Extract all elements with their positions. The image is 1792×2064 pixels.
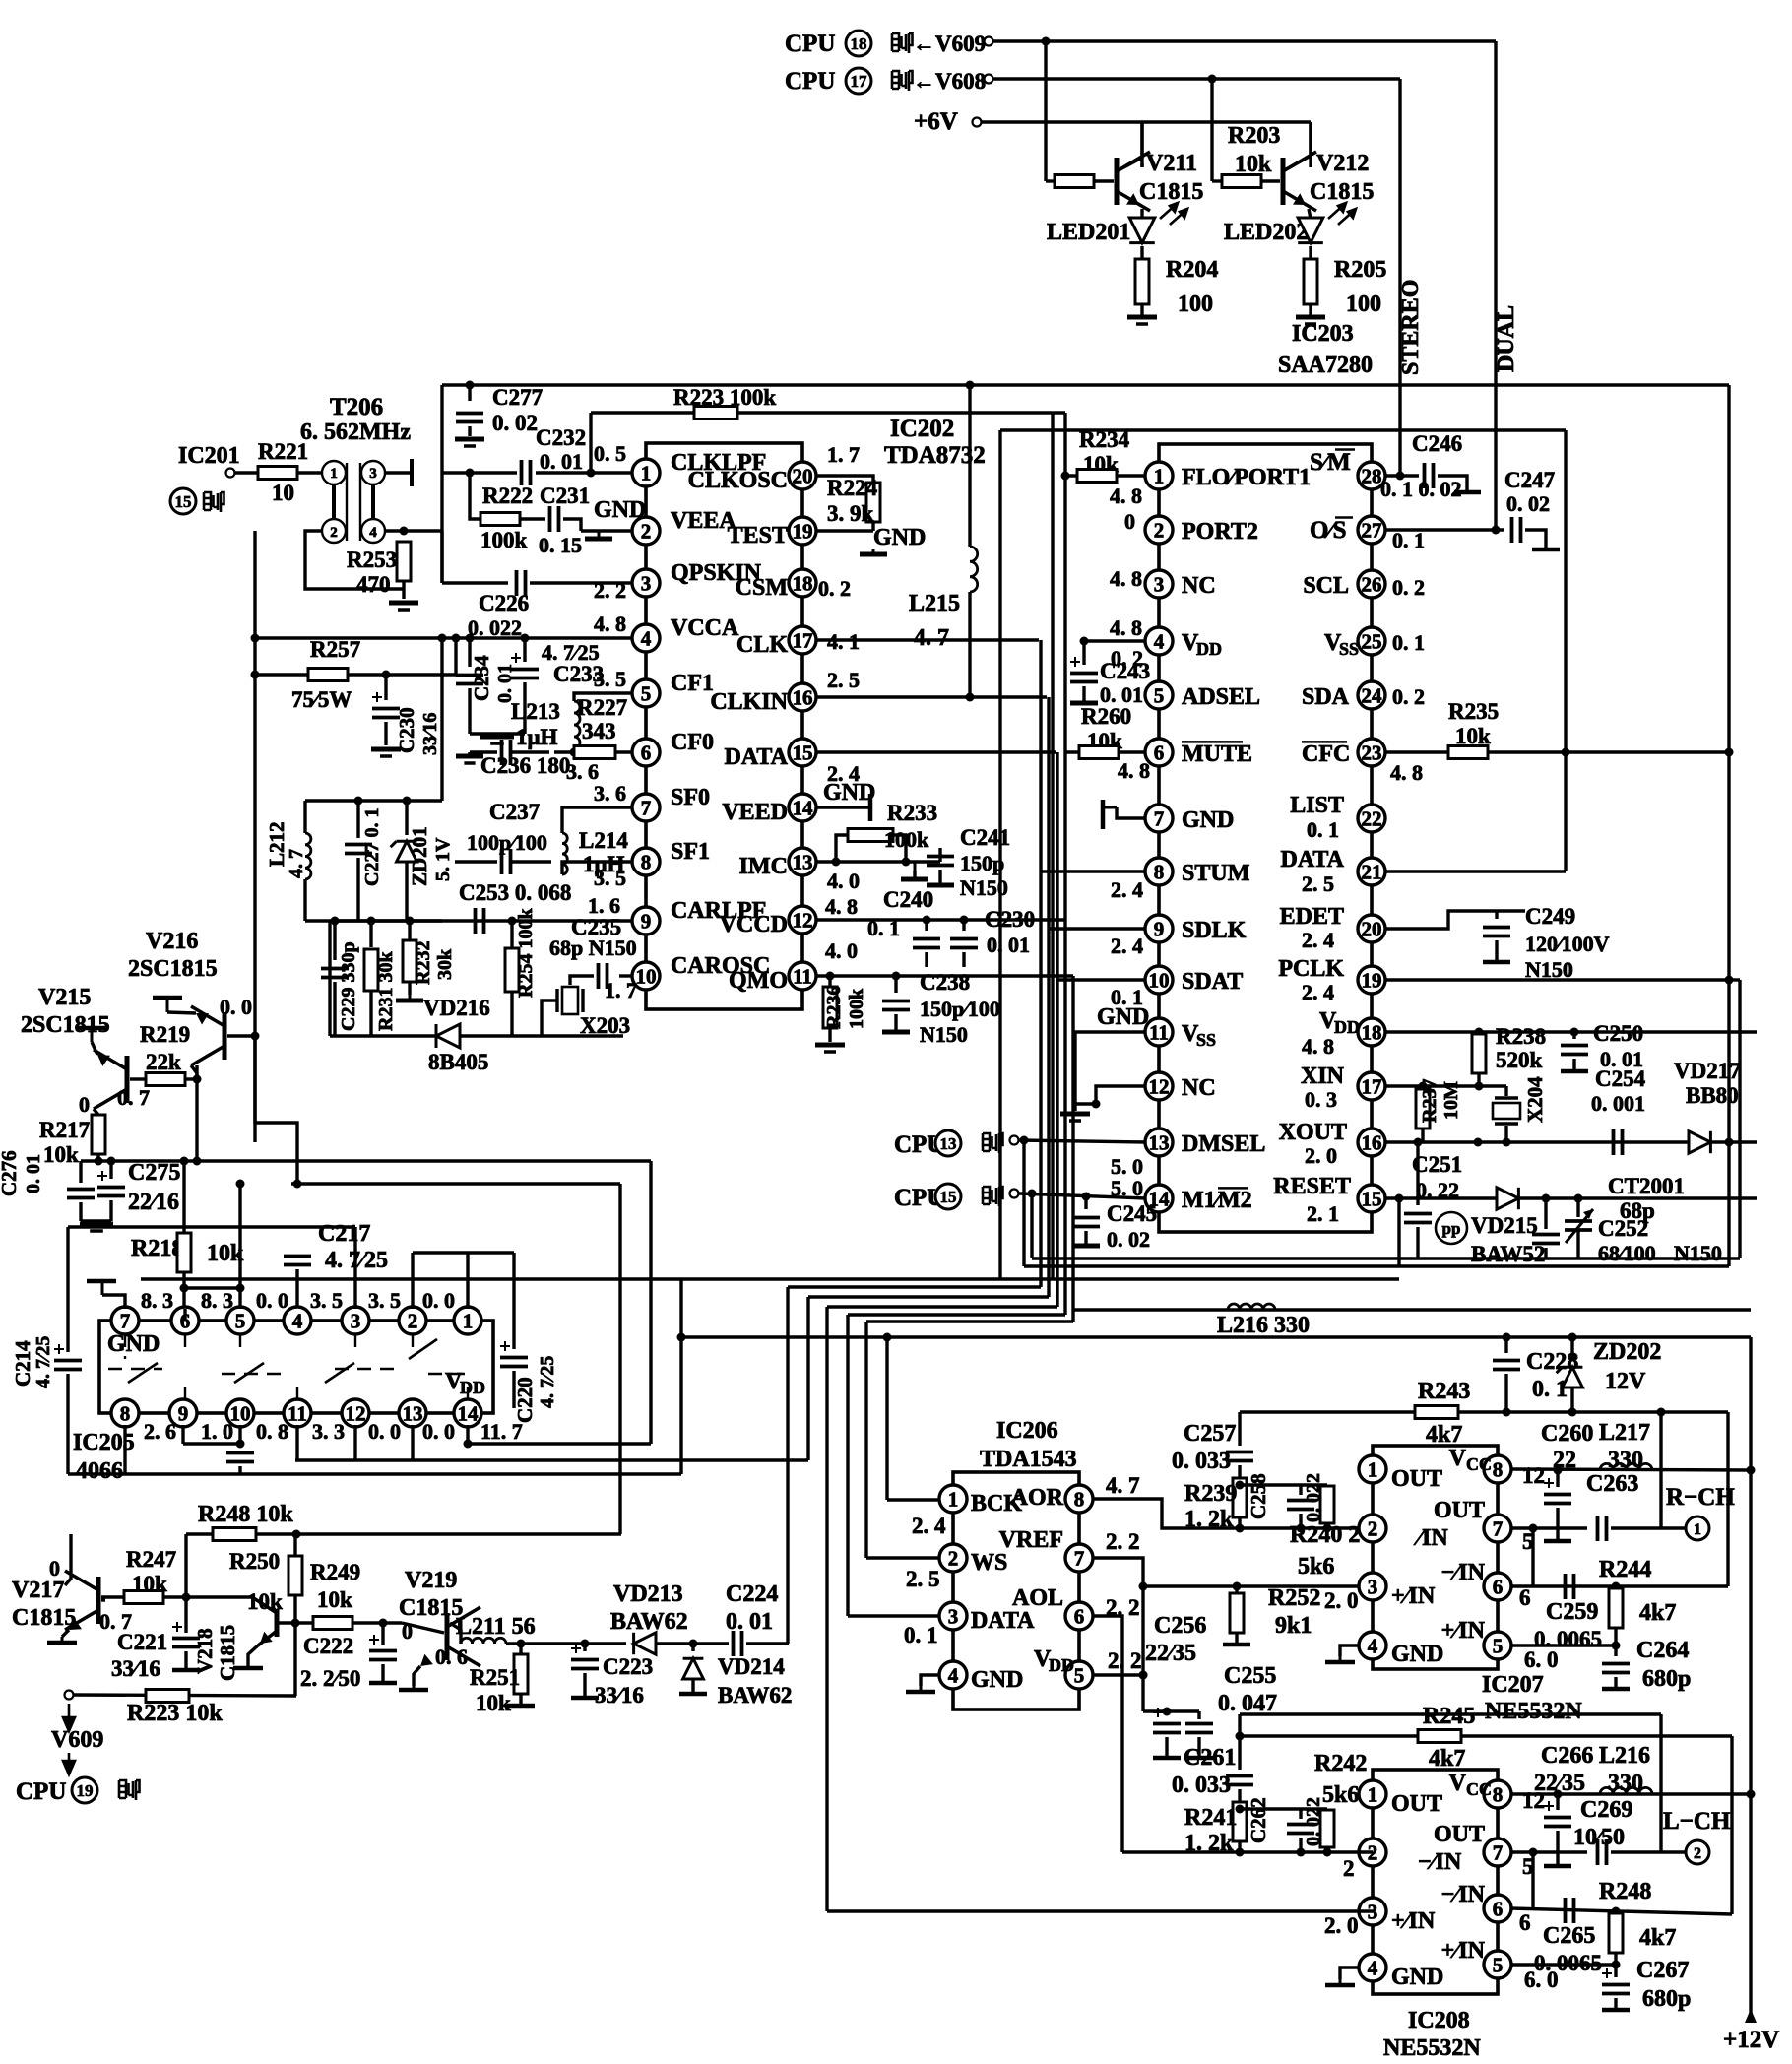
svg-text:C249: C249 xyxy=(1525,904,1575,929)
svg-text:0. 2: 0. 2 xyxy=(818,576,851,601)
svg-text:CT2001: CT2001 xyxy=(1608,1174,1685,1198)
SAA7280 pin 27 xyxy=(1358,516,1385,544)
junction C260 xyxy=(1554,1466,1563,1475)
wire rail2 xyxy=(1032,1257,1740,1259)
svg-text:0. 1: 0. 1 xyxy=(1307,817,1339,842)
resistor R248 (4k7) xyxy=(1609,1913,1623,1953)
wire xyxy=(381,1623,384,1645)
svg-text:100: 100 xyxy=(1178,291,1213,317)
wire pin7 to pin6 link xyxy=(1531,1528,1534,1586)
wire left vertical (T206 pin2 to V216) xyxy=(253,531,256,1142)
svg-text:DATA: DATA xyxy=(971,1608,1035,1634)
svg-text:SAA7280: SAA7280 xyxy=(1278,353,1373,378)
wire bus R234/R260 xyxy=(1063,413,1066,752)
junction R241 bottom xyxy=(1236,1848,1245,1857)
resistor R218 xyxy=(177,1233,191,1272)
svg-text:STUM: STUM xyxy=(1182,861,1249,886)
IC205 pin 9 xyxy=(169,1399,197,1427)
junction V216 base xyxy=(251,1032,260,1041)
resistor R243 xyxy=(1415,1406,1458,1419)
svg-text:10: 10 xyxy=(272,481,294,505)
wire xyxy=(1504,1086,1507,1096)
switch levers IC205 xyxy=(128,1339,437,1383)
svg-text:C269: C269 xyxy=(1580,1797,1632,1823)
svg-text:6: 6 xyxy=(1074,1605,1085,1629)
svg-text:2. 1: 2. 1 xyxy=(1307,1201,1339,1226)
svg-text:C256: C256 xyxy=(1154,1613,1206,1639)
wire C234/C233 common xyxy=(470,732,525,735)
junction BCK line xyxy=(883,1333,892,1342)
junction STEREO bottom xyxy=(1395,1194,1404,1203)
inductor L216 (och) xyxy=(1600,1787,1652,1794)
wire bus down x821 xyxy=(806,1297,809,1460)
resistor R237 xyxy=(1416,1089,1430,1129)
svg-text:0. 01: 0. 01 xyxy=(23,1154,44,1193)
wire xyxy=(693,1642,729,1645)
wire to T206 xyxy=(297,471,322,474)
wire xyxy=(1614,1953,1617,1965)
svg-text:7: 7 xyxy=(1154,807,1165,831)
wire xyxy=(1421,1129,1424,1142)
svg-text:4k7: 4k7 xyxy=(1426,1422,1462,1448)
svg-text:BAW52: BAW52 xyxy=(1471,1242,1545,1266)
wire CPU18 to DUAL line xyxy=(993,39,1496,42)
svg-text:∕IN: ∕IN xyxy=(1413,1525,1448,1551)
svg-text:C259: C259 xyxy=(1546,1599,1598,1625)
wire bus horizontal y1335 xyxy=(848,1313,1065,1316)
svg-text:R218: R218 xyxy=(131,1236,183,1261)
wire xyxy=(303,879,306,921)
svg-text:V218: V218 xyxy=(193,1628,217,1674)
wire xyxy=(455,860,497,863)
svg-text:IC207: IC207 xyxy=(1482,1672,1544,1698)
wire bus vertical x1069 xyxy=(1051,413,1054,1279)
svg-text:4: 4 xyxy=(641,627,652,651)
wire xyxy=(1614,1677,1617,1687)
capacitor C257 xyxy=(1226,1452,1253,1461)
switch dashes IC205 xyxy=(108,1333,468,1400)
terminal L-CH 2 xyxy=(1686,1840,1709,1864)
junction C233 xyxy=(521,634,530,643)
junction L213/R227 xyxy=(570,748,579,757)
svg-text:0. 02: 0. 02 xyxy=(1107,1227,1150,1252)
junction CPU17/V212 base xyxy=(1208,75,1217,84)
wire C257 top xyxy=(1238,1412,1241,1446)
wire xyxy=(408,982,411,995)
svg-text:+∕IN: +∕IN xyxy=(1441,1618,1486,1644)
svg-text:13: 13 xyxy=(940,1134,957,1153)
junction C227 xyxy=(354,797,363,806)
wire xyxy=(523,682,526,734)
ground C267 xyxy=(1602,2008,1630,2013)
terminal V609 out xyxy=(65,1691,74,1700)
ground IC208 xyxy=(1325,1979,1355,1985)
wire bus vertical x1090 xyxy=(1071,976,1074,1322)
wire pin13 IMC xyxy=(815,860,940,863)
SAA7280 pin 12 xyxy=(1145,1072,1173,1100)
svg-text:3. 5: 3. 5 xyxy=(368,1288,401,1313)
svg-text:R239: R239 xyxy=(1184,1481,1237,1507)
terminal CPU15 xyxy=(1010,1190,1019,1198)
capacitor C226 xyxy=(517,570,526,596)
svg-text:−∕IN: −∕IN xyxy=(1441,1882,1486,1907)
svg-text:9: 9 xyxy=(1154,918,1165,941)
ground C277 xyxy=(455,439,484,446)
junction R236 xyxy=(826,972,835,981)
svg-text:R235: R235 xyxy=(1448,699,1499,724)
svg-text:V216: V216 xyxy=(146,929,198,954)
inductor L214 xyxy=(562,833,567,874)
svg-text:8B405: 8B405 xyxy=(428,1050,488,1074)
svg-text:R233: R233 xyxy=(887,801,937,825)
transistor V218 C1815 xyxy=(252,1597,277,1645)
capacitor C234 xyxy=(456,676,483,684)
junction xyxy=(293,1180,302,1189)
junction VCC R xyxy=(1747,1466,1756,1475)
wire xyxy=(356,858,359,921)
svg-text:AOR: AOR xyxy=(1011,1485,1064,1511)
wire inner bus right vertical xyxy=(1564,430,1567,871)
svg-text:4. 7: 4. 7 xyxy=(286,849,307,878)
ground pin7 xyxy=(1103,800,1117,829)
svg-text:0. 022: 0. 022 xyxy=(1303,1473,1324,1522)
svg-text:9: 9 xyxy=(178,1402,189,1426)
svg-text:R241: R241 xyxy=(1184,1805,1237,1831)
wire CT2001 bottom xyxy=(1576,1230,1579,1258)
svg-text:6. 0: 6. 0 xyxy=(1524,1967,1559,1992)
svg-text:2. 0: 2. 0 xyxy=(1305,1143,1337,1168)
svg-text:DD: DD xyxy=(460,1378,485,1397)
wire R223 row xyxy=(73,1695,296,1696)
wire xyxy=(1504,1126,1507,1142)
svg-text:R205: R205 xyxy=(1334,257,1386,283)
svg-text:0. 0: 0. 0 xyxy=(422,1288,455,1313)
svg-text:R219: R219 xyxy=(140,1022,190,1047)
svg-text:1: 1 xyxy=(1368,1783,1378,1807)
wire inner bus left vertical xyxy=(998,430,1001,1279)
svg-text:C234: C234 xyxy=(470,655,493,701)
IC207 pin 3 xyxy=(1359,1573,1386,1600)
wire V219 emitter xyxy=(414,1666,420,1686)
junction V218 collector xyxy=(291,1619,300,1628)
wire pin16 CLKIN to bus xyxy=(815,695,1047,698)
wire xyxy=(1572,1032,1575,1039)
wire pin14 to bus xyxy=(468,1442,651,1445)
crystal X203 xyxy=(557,987,583,1014)
svg-text:C229 330p: C229 330p xyxy=(338,941,359,1031)
junction CFC/right bus xyxy=(1725,748,1734,757)
wire VDD right xyxy=(1092,1673,1143,1676)
wire ladder top xyxy=(1240,1483,1327,1486)
capacitor C217 xyxy=(284,1257,311,1265)
svg-text:16: 16 xyxy=(1362,1131,1382,1155)
svg-text:0. 6: 0. 6 xyxy=(435,1645,468,1669)
wire IC208 OUT row xyxy=(1510,1850,1587,1853)
svg-text:SDA: SDA xyxy=(1302,684,1350,710)
svg-text:R237: R237 xyxy=(1419,1079,1440,1123)
wire xyxy=(1238,1789,1241,1801)
IC208 pin 1 xyxy=(1359,1780,1386,1808)
junction xyxy=(1236,1732,1245,1741)
junction R251 xyxy=(517,1640,526,1648)
junction R238 xyxy=(1475,1028,1484,1037)
LED LED201 xyxy=(1129,218,1155,243)
capacitor C264 xyxy=(1602,1664,1630,1673)
wire VREF down xyxy=(1092,1558,1143,1675)
wire pin7 GND xyxy=(1117,807,1146,818)
svg-text:OUT: OUT xyxy=(1434,1822,1485,1847)
IC202 pin 4 VCCA xyxy=(632,624,660,652)
junction xyxy=(251,634,260,643)
svg-text:R234: R234 xyxy=(1079,427,1130,452)
svg-text:0. 0: 0. 0 xyxy=(422,1419,455,1444)
wire bus vertical x1057 xyxy=(1039,640,1042,1287)
resistor R239 xyxy=(1233,1478,1247,1517)
wire pin3 QPSKIN left xyxy=(442,581,508,584)
svg-text:C253 0. 068: C253 0. 068 xyxy=(459,880,571,905)
svg-text:0. 033: 0. 033 xyxy=(1172,1773,1231,1798)
junction R234 xyxy=(1061,472,1070,481)
junction CPU18/V211 base xyxy=(1042,37,1051,46)
wire upper branch 208 xyxy=(1240,1712,1661,1715)
resistor R235 xyxy=(1448,746,1488,759)
wire IC207 GND xyxy=(1340,1645,1360,1656)
node CPU 13 xyxy=(935,1130,961,1156)
svg-text:13: 13 xyxy=(1149,1131,1170,1155)
wire to pin6 xyxy=(615,750,633,753)
SAA7280 pin 4 xyxy=(1145,627,1173,655)
ground R236 xyxy=(815,1045,845,1052)
svg-text:ZD202: ZD202 xyxy=(1593,1339,1661,1365)
arrow V609 xyxy=(63,1704,75,1731)
wire bus down x901 xyxy=(885,1337,888,1500)
svg-text:C258: C258 xyxy=(1247,1473,1270,1519)
wire V212 collector xyxy=(1283,122,1311,171)
wire xyxy=(1235,1633,1238,1643)
IC206 pin 3 xyxy=(939,1602,967,1630)
wire pin8 SF1 xyxy=(562,862,633,874)
junction C232/R222 xyxy=(466,469,475,478)
wire C252 stub xyxy=(1544,1198,1547,1229)
junction xyxy=(1092,1100,1101,1109)
resistor 0.022 film cap 208 xyxy=(1320,1810,1334,1847)
capacitor C240 bypass xyxy=(913,939,940,948)
IC202 pin 19 TEST xyxy=(789,517,816,545)
junction xyxy=(1236,1805,1245,1814)
IC202 pin 1 CLKLPF xyxy=(632,459,660,486)
ground C250 xyxy=(1561,1069,1588,1074)
label jiao 15 xyxy=(204,492,224,512)
svg-text:4: 4 xyxy=(1154,630,1165,654)
svg-text:IC208: IC208 xyxy=(1408,2008,1470,2033)
inductor L213 xyxy=(574,701,580,748)
resistor V211 base (unmarked) xyxy=(1055,175,1094,188)
svg-text:C217: C217 xyxy=(318,1221,370,1247)
svg-text:C260: C260 xyxy=(1541,1421,1593,1447)
svg-text:ZD201: ZD201 xyxy=(408,826,431,886)
wire R218 bottom to 4066 xyxy=(182,1272,185,1309)
IC208 pin 7 xyxy=(1484,1838,1511,1866)
svg-text:2. 2∕50: 2. 2∕50 xyxy=(300,1666,360,1691)
wire T206 pin2 loop xyxy=(305,531,404,589)
svg-text:BAW62: BAW62 xyxy=(610,1609,688,1635)
wire xyxy=(109,1161,112,1179)
wire R218 to pin5 link xyxy=(184,1286,240,1289)
svg-text:14: 14 xyxy=(458,1402,480,1426)
wire V212 emitter to LED xyxy=(1309,209,1311,219)
svg-text:6: 6 xyxy=(1154,742,1165,765)
junction ZD202 bottom xyxy=(1568,1408,1577,1417)
wire long rail y1497 xyxy=(68,1472,681,1475)
SAA7280 pin 5 xyxy=(1145,681,1173,709)
svg-text:5: 5 xyxy=(1074,1664,1085,1688)
svg-text:R248: R248 xyxy=(1599,1879,1651,1904)
svg-text:10k: 10k xyxy=(247,1589,283,1614)
ground C238 xyxy=(882,1030,910,1035)
svg-text:2: 2 xyxy=(408,1310,418,1333)
svg-text:1. 7: 1. 7 xyxy=(605,978,637,1002)
wire R243 feedback row xyxy=(1240,1410,1728,1413)
junction C266 xyxy=(1554,1790,1563,1799)
svg-text:6: 6 xyxy=(1493,1898,1504,1921)
svg-text:C236 180: C236 180 xyxy=(480,753,570,778)
svg-text:QMO: QMO xyxy=(729,968,788,994)
svg-text:C214: C214 xyxy=(11,1340,34,1387)
svg-text:0. 2: 0. 2 xyxy=(1392,684,1425,709)
wire bus down x840 xyxy=(825,1307,828,1911)
svg-text:2. 4: 2. 4 xyxy=(1302,928,1334,952)
svg-text:75∕5W: 75∕5W xyxy=(291,687,352,712)
ground C223 xyxy=(571,1696,599,1701)
svg-text:10: 10 xyxy=(636,965,657,989)
wire bus vertical x661 xyxy=(649,1161,652,1444)
svg-text:C266: C266 xyxy=(1541,1743,1593,1769)
svg-text:4. 0: 4. 0 xyxy=(825,938,858,963)
wire pin14 VEED xyxy=(815,806,870,808)
resistor R247 xyxy=(124,1591,163,1604)
svg-text:R250: R250 xyxy=(229,1549,280,1574)
wire pin23 CFC row xyxy=(1384,750,1729,753)
svg-text:4. 7: 4. 7 xyxy=(1106,1473,1140,1498)
junction ZD201 xyxy=(403,797,412,806)
wire pin2 VEEA xyxy=(581,529,633,532)
svg-text:BAW62: BAW62 xyxy=(718,1683,792,1708)
wire xyxy=(554,750,574,753)
junction DUAL xyxy=(1492,526,1501,535)
wire osc top rail xyxy=(305,799,442,802)
resistor R222 xyxy=(480,513,520,526)
capacitor C269 xyxy=(1598,1839,1607,1865)
wire xyxy=(1416,1142,1419,1205)
svg-text:C243: C243 xyxy=(1100,659,1150,683)
junction R244 xyxy=(1612,1582,1621,1591)
svg-text:−∕IN: −∕IN xyxy=(1418,1849,1462,1875)
svg-text:VEED: VEED xyxy=(722,800,788,825)
junction C234 xyxy=(466,634,475,643)
SAA7280 pin 11 xyxy=(1145,1018,1173,1046)
wire bus x692 xyxy=(679,1279,682,1474)
IC206 pin 2 xyxy=(939,1544,967,1572)
wire xyxy=(1238,1465,1241,1477)
junction C250 xyxy=(1570,1028,1579,1037)
svg-text:GND: GND xyxy=(1097,1004,1149,1030)
svg-text:6. 562MHz: 6. 562MHz xyxy=(300,419,411,445)
resistor R205 xyxy=(1304,259,1317,304)
wire C214 bottom xyxy=(66,1374,69,1474)
capacitor C267 xyxy=(1602,1985,1630,1994)
SAA7280 pin 1 xyxy=(1145,462,1173,489)
svg-text:MUTE: MUTE xyxy=(1182,742,1252,767)
svg-text:4066: 4066 xyxy=(76,1458,123,1484)
capacitor C247 xyxy=(1512,517,1521,543)
wire xyxy=(470,750,497,753)
wire R248 row xyxy=(186,1532,621,1535)
ground R232 xyxy=(396,995,423,1000)
svg-text:33∕16: 33∕16 xyxy=(595,1683,644,1708)
IC202 pin 10 CAROSC xyxy=(632,962,660,990)
junction pin10 xyxy=(236,1440,245,1449)
IC206 pin 5 xyxy=(1065,1661,1093,1689)
wire pin28 S/M xyxy=(1384,474,1419,477)
IC207 pin 4 xyxy=(1359,1632,1386,1659)
wire V216 collector down xyxy=(191,1065,197,1079)
wire xyxy=(384,722,387,745)
wire osc bottom rail2 xyxy=(330,1034,623,1037)
SAA7280 pin 6 xyxy=(1145,739,1173,766)
wire C220 stub xyxy=(512,1253,515,1309)
wire pin4 VDD xyxy=(1084,639,1146,642)
svg-text:EDET: EDET xyxy=(1280,904,1344,930)
IC207 pin 1 xyxy=(1359,1455,1386,1483)
wire to X203 xyxy=(570,976,594,985)
wire R204 to ground xyxy=(1140,304,1143,315)
svg-text:100k: 100k xyxy=(480,528,528,552)
wire pin9 SDLK to bus xyxy=(1049,927,1146,930)
wire xyxy=(1556,1794,1559,1810)
svg-text:+12V: +12V xyxy=(1723,2027,1779,2053)
svg-text:C246: C246 xyxy=(1412,431,1462,456)
svg-text:2: 2 xyxy=(1368,1517,1378,1541)
svg-text:6: 6 xyxy=(1519,1585,1531,1610)
junction R248b xyxy=(1612,1907,1621,1916)
wire xyxy=(369,921,372,947)
svg-text:5: 5 xyxy=(1493,1635,1504,1658)
svg-text:1: 1 xyxy=(1368,1458,1378,1482)
wire xyxy=(925,920,928,931)
capacitor C265 xyxy=(1566,1898,1574,1923)
junction R252 xyxy=(1233,1582,1242,1591)
svg-text:C265: C265 xyxy=(1543,1923,1595,1949)
svg-text:5: 5 xyxy=(235,1310,246,1333)
svg-text:C220: C220 xyxy=(513,1377,537,1423)
wire xyxy=(925,952,928,967)
svg-text:6: 6 xyxy=(1493,1576,1504,1599)
svg-text:L216 330: L216 330 xyxy=(1217,1313,1310,1338)
svg-text:DD: DD xyxy=(1334,1017,1360,1037)
svg-text:6. 0: 6. 0 xyxy=(1524,1647,1559,1672)
IC205 pin 10 xyxy=(226,1399,254,1427)
wire xyxy=(1477,1073,1480,1086)
zener ZD202 xyxy=(1557,1367,1583,1387)
label jiao cpu13 xyxy=(983,1133,1003,1153)
variable capacitor CT2001 xyxy=(1565,1209,1593,1243)
wire to BCK xyxy=(887,1498,940,1501)
wire xyxy=(1544,1248,1547,1258)
svg-text:3. 5: 3. 5 xyxy=(594,866,626,890)
svg-text:3: 3 xyxy=(1154,573,1165,597)
svg-text:N150: N150 xyxy=(960,875,1008,900)
wire xyxy=(468,1251,514,1254)
